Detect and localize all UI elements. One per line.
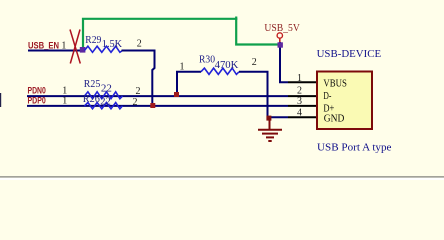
junction (purple) at USB_EN / green wire / R29 [80, 47, 86, 53]
svg-text:22: 22 [100, 95, 111, 107]
svg-text:R25: R25 [84, 78, 101, 90]
component body USB-DEVICE [317, 72, 372, 130]
svg-text:22: 22 [101, 82, 112, 94]
svg-text:D-: D- [323, 91, 331, 102]
junction (dark red) at GND node [266, 116, 271, 121]
junction (purple) green wire / USB_5V [278, 42, 283, 47]
svg-text:2: 2 [133, 97, 138, 108]
power port stem [279, 38, 281, 43]
svg-text:3: 3 [297, 96, 302, 107]
svg-text:2: 2 [136, 86, 141, 97]
svg-text:4: 4 [297, 108, 302, 119]
ground symbol [258, 118, 282, 141]
svg-text:2: 2 [252, 57, 257, 68]
svg-text:GND: GND [324, 113, 345, 124]
resistor R26 zigzag [84, 103, 122, 109]
svg-text:1: 1 [297, 73, 302, 84]
svg-text:PDP0: PDP0 [28, 96, 46, 107]
svg-text:1.5K: 1.5K [102, 38, 122, 50]
wire green corner stub [235, 17, 237, 21]
wire R30 pin1 down to PDN0 [177, 72, 201, 96]
wire PDP0 net [27, 105, 288, 107]
junction (red) R29 wire on PDP0 [150, 103, 155, 108]
pin 1 VBUS [288, 81, 317, 83]
pin 4 GND [288, 116, 317, 118]
svg-text:1: 1 [62, 95, 67, 106]
wire R30 pin2 to GND node [239, 72, 268, 118]
resistor R30 zigzag [201, 68, 239, 74]
wire USB_5V down to VBUS pin [280, 42, 288, 82]
component USB-DEVICE pins (black) [288, 82, 317, 117]
resistor R29 zigzag [84, 46, 122, 52]
svg-text:2: 2 [137, 39, 142, 50]
pin 3 D+ [288, 105, 317, 107]
svg-text:USB_EN: USB_EN [28, 41, 59, 52]
svg-text:1: 1 [61, 41, 66, 52]
svg-text:R30: R30 [199, 53, 215, 65]
svg-text:USB Port A type: USB Port A type [317, 141, 392, 153]
resistor R25 zigzag [84, 92, 122, 99]
power port USB_5V circle symbol [277, 33, 282, 38]
svg-text:USB-DEVICE: USB-DEVICE [317, 48, 382, 60]
pin 2 D- [288, 95, 317, 97]
wire stub clipped at sheet edge (PDN0/PDP0 source) [0, 93, 1, 107]
svg-text:R29: R29 [85, 34, 101, 46]
svg-text:USB_5V: USB_5V [264, 23, 300, 34]
junction (red) R30 pin1 on PDN0 [174, 92, 179, 97]
wire green: USB_EN1 node up and over to USB_5V node [83, 19, 280, 49]
wire GND pin4 to ground [268, 116, 289, 118]
no-ERC marker red X [70, 30, 80, 64]
svg-text:VBUS: VBUS [323, 78, 347, 89]
svg-text:1: 1 [180, 62, 185, 73]
wire from R29 pin2 down to PDP0 [122, 51, 155, 106]
svg-text:R26: R26 [83, 93, 100, 105]
wire PDN0 net [27, 95, 288, 97]
svg-text:470K: 470K [215, 59, 239, 71]
wire USB_EN net [28, 50, 83, 52]
